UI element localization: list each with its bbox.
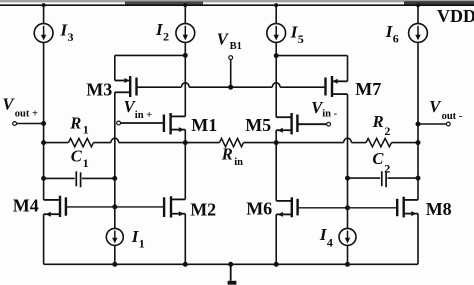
- svg-text:5: 5: [298, 32, 304, 46]
- label M1: [191, 115, 217, 135]
- svg-text:2: 2: [384, 124, 390, 138]
- node Vin- terminal: [298, 122, 330, 126]
- svg-text:R: R: [221, 145, 233, 164]
- transistor M4: [44, 196, 66, 217]
- label VB1: [217, 29, 242, 52]
- svg-text:M7: M7: [355, 79, 381, 99]
- current source I1: [106, 207, 123, 266]
- current source I6: [409, 24, 428, 43]
- svg-text:M4: M4: [13, 196, 39, 216]
- wire: right column (I6 to M8 drain) with taps: [416, 42, 420, 200]
- current source I4: [339, 208, 356, 266]
- label Rin: [221, 145, 243, 169]
- node Vin+ terminal: [117, 121, 163, 125]
- wire: M3 drain down to M4/M2 gate line: [114, 92, 116, 207]
- label I1: [131, 227, 145, 251]
- svg-text:in -: in -: [322, 108, 337, 119]
- current source I5: [267, 24, 286, 43]
- label M5: [245, 115, 271, 135]
- label I6: [385, 22, 399, 46]
- svg-text:1: 1: [139, 237, 145, 251]
- label M4: [13, 196, 39, 216]
- svg-text:V: V: [217, 29, 230, 48]
- wire: I5 column top: [275, 4, 278, 24]
- transistor M5: [276, 113, 297, 134]
- svg-text:V: V: [429, 97, 442, 116]
- transistor M2: [164, 196, 185, 217]
- wire: left column (M4 source to ground rail): [43, 214, 45, 264]
- svg-text:R: R: [69, 114, 81, 133]
- wire: right column top (VDD to I6): [416, 4, 419, 24]
- label M7: [355, 79, 381, 99]
- label I2: [155, 20, 169, 44]
- label I4: [319, 225, 333, 250]
- label M3: [86, 79, 112, 99]
- svg-text:M2: M2: [190, 199, 216, 219]
- wire: right column (M8 source to ground rail): [417, 214, 419, 265]
- wire: bias line M3 gate to M7 gate (hops over columns): [138, 83, 325, 89]
- svg-text:6: 6: [393, 32, 399, 46]
- svg-text:B1: B1: [230, 41, 242, 52]
- label R1: [69, 114, 89, 137]
- wire: M4-M2 gate line: [67, 205, 163, 209]
- label C2: [372, 149, 390, 175]
- current source I3: [34, 24, 53, 43]
- svg-text:3: 3: [68, 30, 74, 44]
- label Vout+: [3, 95, 39, 120]
- svg-text:1: 1: [83, 156, 89, 170]
- wire: M2 source down to ground rail: [183, 214, 187, 267]
- svg-text:M3: M3: [86, 79, 112, 99]
- label I5: [290, 23, 304, 47]
- label M6: [246, 198, 272, 218]
- wire: M2 drain up to mid node: [184, 143, 186, 200]
- svg-text:M1: M1: [191, 115, 217, 135]
- wire: ground rail: [44, 263, 418, 265]
- label I3: [60, 21, 74, 45]
- label M8: [426, 199, 452, 219]
- transistor M8: [397, 197, 418, 218]
- transistor M7: [326, 76, 348, 97]
- svg-text:2: 2: [163, 30, 169, 44]
- node VB1 terminal: [229, 56, 233, 88]
- transistor M1: [164, 113, 185, 134]
- label R2: [372, 112, 391, 138]
- transistor M3: [115, 76, 137, 97]
- svg-text:1: 1: [83, 123, 89, 137]
- wire: M6 drain up to mid node: [275, 143, 277, 201]
- VDD top rail: [0, 0, 474, 5]
- ground: [228, 262, 237, 284]
- wire: M7 source up-loop to node B: [276, 56, 347, 82]
- svg-text:M8: M8: [426, 199, 452, 219]
- wire: left column top (VDD to I3): [42, 4, 45, 24]
- svg-text:C: C: [372, 149, 384, 168]
- current source I2: [176, 24, 195, 43]
- svg-text:VDD: VDD: [437, 6, 474, 26]
- wire: M5 source to mid node: [275, 130, 277, 142]
- node Vout- terminal: [418, 122, 450, 126]
- capacitor C2: [346, 171, 419, 187]
- svg-text:V: V: [3, 95, 16, 114]
- svg-text:in +: in +: [135, 110, 152, 121]
- svg-text:in: in: [234, 157, 243, 168]
- svg-text:4: 4: [327, 236, 333, 250]
- svg-text:2: 2: [384, 161, 390, 175]
- wire: I2 column down to M1 drain: [184, 42, 186, 116]
- VDD label: [437, 6, 474, 26]
- label Vin-: [311, 98, 337, 119]
- wire: M6 source down to ground rail: [274, 214, 278, 266]
- wire: M1 source to mid node: [184, 130, 186, 143]
- label C1: [71, 147, 89, 171]
- svg-text:R: R: [372, 112, 384, 131]
- svg-text:M5: M5: [245, 115, 271, 135]
- svg-text:out +: out +: [15, 109, 38, 120]
- svg-text:M6: M6: [246, 198, 272, 218]
- svg-text:C: C: [71, 147, 83, 166]
- label Vout-: [429, 97, 463, 122]
- label M2: [190, 199, 216, 219]
- label Vin+: [124, 97, 153, 121]
- svg-text:out -: out -: [442, 111, 463, 122]
- capacitor C1: [44, 171, 117, 187]
- wire: I2 column top: [184, 4, 187, 24]
- transistor M6: [276, 197, 297, 217]
- wire: I5 column down to M5 drain: [274, 42, 278, 117]
- wire: M3 source up-loop to node A: [115, 53, 188, 80]
- wire: M6-M8 gate line: [299, 206, 397, 210]
- wire: mid node line with R1 Rin R2 (hops over M3/M7 drain lines): [44, 138, 418, 147]
- node Vout+ terminal: [13, 122, 44, 126]
- wire: left column (I3 to M4 drain) with taps: [42, 42, 46, 200]
- wire: M7 drain down to M6/M8 gate line: [347, 94, 349, 208]
